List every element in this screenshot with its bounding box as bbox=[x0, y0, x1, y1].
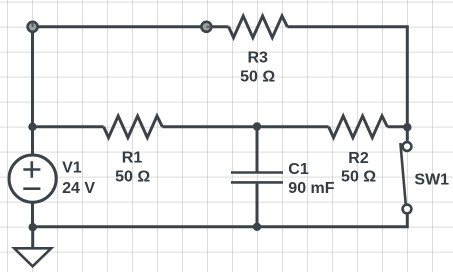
junction C1 bottom bbox=[253, 223, 261, 231]
label V1 bbox=[62, 159, 82, 176]
wire C1 top lead bbox=[256, 127, 259, 172]
svg-text:R3: R3 bbox=[247, 49, 268, 66]
junction left-middle bbox=[28, 123, 36, 131]
resistor R1 bbox=[104, 116, 163, 138]
label R3 bbox=[247, 49, 268, 66]
svg-text:90 mF: 90 mF bbox=[288, 180, 334, 197]
junction right-middle bbox=[403, 123, 411, 131]
wire top-right L (top rail right to right rail down to SW1) bbox=[287, 27, 407, 141]
value R2 50 Ω bbox=[341, 168, 376, 185]
capacitor C1 plates bbox=[231, 173, 283, 183]
svg-text:R1: R1 bbox=[122, 149, 143, 166]
value C1 90 mF bbox=[288, 180, 334, 197]
value R3 50 Ω bbox=[240, 68, 275, 85]
svg-text:R2: R2 bbox=[348, 150, 369, 167]
switch SW1 bbox=[400, 142, 411, 213]
svg-text:C1: C1 bbox=[288, 161, 309, 178]
wire middle-center (R1 to R2 through node C) bbox=[162, 125, 328, 128]
svg-text:50 Ω: 50 Ω bbox=[115, 168, 150, 185]
value R1 50 Ω bbox=[115, 168, 150, 185]
wire V1 bottom lead bbox=[31, 202, 34, 227]
label SW1 bbox=[414, 172, 449, 189]
label C1 bbox=[288, 161, 309, 178]
junction C1 top bbox=[253, 122, 261, 130]
value V1 24 V bbox=[62, 180, 95, 197]
wire C1 bottom lead bbox=[256, 184, 259, 227]
wire bottom L (SW1 bottom to bottom rail to left) bbox=[33, 215, 408, 227]
label R2 bbox=[348, 150, 369, 167]
resistor R2 bbox=[329, 116, 388, 138]
wire ground lead bbox=[31, 227, 34, 248]
wire middle-left (left rail to R1) bbox=[33, 125, 104, 128]
svg-text:24 V: 24 V bbox=[62, 180, 95, 197]
ground bbox=[14, 248, 51, 266]
svg-text:V1: V1 bbox=[62, 159, 82, 176]
node top-left bbox=[28, 22, 38, 32]
svg-text:50 Ω: 50 Ω bbox=[240, 68, 275, 85]
svg-text:50 Ω: 50 Ω bbox=[341, 168, 376, 185]
resistor R3 bbox=[229, 16, 288, 38]
node top-middle bbox=[201, 22, 211, 32]
junction left-bottom bbox=[29, 223, 37, 231]
svg-text:SW1: SW1 bbox=[414, 172, 449, 189]
voltage source V1 bbox=[9, 155, 56, 202]
wire middle-right (R2 to right rail) bbox=[387, 125, 407, 128]
label R1 bbox=[122, 149, 143, 166]
wire top-left L (top rail to left rail down to V1) bbox=[33, 27, 229, 155]
